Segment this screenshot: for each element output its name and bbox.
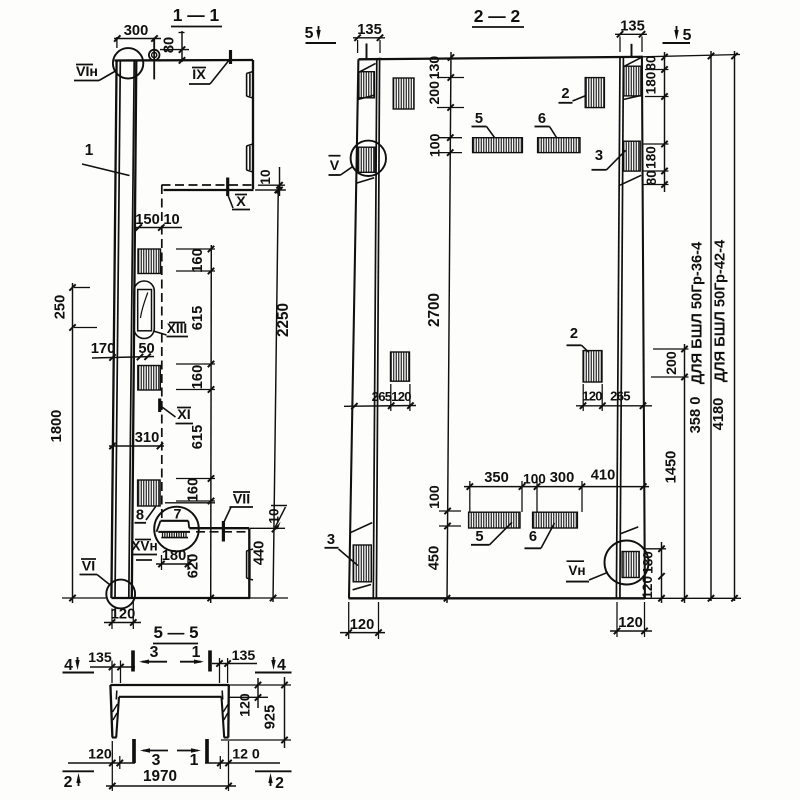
5-5 dim 120 line (257, 678, 259, 708)
chain 449 tick y526 (444, 523, 450, 529)
label 1 leader (82, 142, 130, 176)
5-5 left leg outer (110, 685, 112, 738)
dim 120 text l (391, 389, 411, 404)
label X (228, 194, 250, 210)
groove notch lower on 1-1 right edge (246, 144, 253, 172)
2-2 left rib outer edge (349, 59, 358, 598)
dim 10 corner line (279, 167, 281, 196)
svg-text:Vн: Vн (568, 563, 585, 578)
anchor block 8 upper (138, 249, 161, 274)
label 3 left (325, 532, 358, 566)
svg-text:615: 615 (190, 425, 206, 450)
svg-text:3: 3 (150, 644, 159, 661)
detail circle VI bottom (106, 580, 135, 609)
chain 211 tick y249 (208, 246, 214, 252)
marker 4 left (63, 657, 95, 674)
svg-text:50: 50 (138, 341, 154, 357)
svg-text:2: 2 (64, 774, 73, 791)
marker 2 left (63, 771, 95, 791)
plate 2 mid-right (583, 351, 602, 382)
chain 2250 ticks (270, 187, 281, 601)
label IX (189, 61, 229, 85)
svg-text:135: 135 (88, 650, 112, 666)
svg-text:XVн: XVн (131, 539, 157, 554)
svg-text:120: 120 (618, 615, 643, 631)
dim 80 text a (644, 55, 659, 70)
svg-text:450: 450 (427, 546, 443, 571)
label 7 in detail (174, 507, 182, 523)
svg-text:200: 200 (427, 81, 443, 105)
1-1 lower-right part top edge (189, 527, 249, 529)
svg-text:2 — 2: 2 — 2 (474, 6, 520, 26)
dim 350-410 tick x522 (519, 483, 525, 489)
5-5 dim 1970 line (106, 785, 236, 787)
dim 200 text r (664, 351, 680, 375)
serration teeth (163, 533, 187, 538)
dim 440 text (252, 541, 268, 566)
2-2 right rib outer edge (642, 57, 645, 598)
chain 449 tick y57.5 (448, 54, 454, 60)
5-5 leg hatch right (223, 704, 228, 720)
svg-text:615: 615 (190, 306, 206, 331)
5-5 top edge (110, 684, 229, 686)
dim 180 line (156, 563, 192, 565)
lifting loop (149, 50, 160, 61)
chain 4180 ticks (731, 53, 737, 602)
chain 664 tick y144 (661, 141, 667, 147)
2-2 right rib diag b (623, 96, 640, 100)
svg-text:4: 4 (277, 657, 286, 674)
5-5 left leg bottom (112, 736, 117, 738)
chain 211 ext y389.5 (176, 389, 215, 391)
svg-text:180: 180 (644, 146, 659, 169)
step lower edge (158, 531, 190, 533)
dim 10 step text (267, 508, 282, 523)
view 1-1 title (171, 5, 222, 27)
dim 80 text b (644, 170, 659, 185)
svg-text:410: 410 (591, 468, 616, 484)
1-1 bottom edge (111, 597, 250, 599)
2-2 left rib inner edge b (376, 58, 379, 599)
5-5 dim 135 right ext (220, 658, 228, 683)
dim 120-265 ticks (580, 403, 646, 409)
svg-text:1450: 1450 (664, 451, 680, 484)
5-5 dim 120 br (205, 747, 280, 767)
label 6 bottom (525, 523, 555, 548)
svg-text:135: 135 (620, 19, 645, 35)
label VIn (74, 64, 115, 81)
chain 211 tick y364 (208, 361, 214, 367)
chain 2250 line (273, 186, 278, 602)
1-1 right flange edge (252, 60, 254, 189)
chain 449 tick y511 (444, 508, 450, 514)
detail circle XVn (154, 507, 199, 552)
svg-text:120: 120 (88, 747, 112, 763)
chain 684 ticks (681, 346, 687, 602)
svg-text:440: 440 (252, 541, 268, 566)
plate 5 top (473, 138, 523, 153)
dim 100 text mid (523, 472, 546, 487)
cut bar 1 bottom (177, 739, 207, 769)
2-2 right rib inner edge b (620, 57, 624, 598)
dim 615 text a (190, 306, 206, 331)
2-2 left rib diag c (356, 178, 374, 184)
dim 350-410 tick x643.3 (640, 483, 646, 489)
svg-text:3: 3 (595, 148, 603, 164)
chain 449 tick y598.3 (444, 595, 450, 601)
2-2 dim 120 bl ext (349, 602, 379, 639)
dim 2250 ext top (255, 189, 286, 191)
dim 310 ticks (109, 443, 163, 449)
svg-text:1970: 1970 (143, 768, 177, 785)
svg-text:180: 180 (644, 72, 659, 95)
chain 211 line (210, 245, 213, 603)
svg-text:1 — 1: 1 — 1 (173, 5, 220, 25)
dim 180 text b (644, 146, 659, 169)
dim 410 text (591, 468, 616, 484)
chain 664 ext (643, 70, 669, 185)
svg-text:1800: 1800 (49, 410, 65, 443)
svg-text:1: 1 (85, 142, 94, 159)
5-5 dim 925 text (263, 705, 279, 730)
5-5 right leg inner (222, 697, 225, 738)
2-2 left rib top pin (366, 44, 368, 60)
text 4180 (711, 398, 727, 431)
chain 449 line (447, 52, 451, 603)
dim 135 left line (353, 37, 385, 39)
label VI (80, 559, 110, 585)
svg-text:80: 80 (162, 37, 178, 53)
svg-text:10: 10 (163, 212, 179, 228)
svg-text:120: 120 (391, 389, 411, 404)
dim 120 line (104, 622, 141, 624)
dim 620 text (186, 554, 202, 579)
dim 180 text c (641, 551, 656, 574)
label 6 top (535, 111, 557, 138)
2-2 left rib diag b (358, 95, 374, 99)
svg-text:80: 80 (644, 55, 659, 70)
2-2 dim 120 bottom right (610, 615, 652, 634)
2-2 left rib block bottom (353, 545, 371, 582)
svg-text:12 0: 12 0 (232, 747, 260, 763)
chain 449 ext b (438, 138, 462, 153)
marker 2 right (255, 771, 292, 792)
2-2 right rib diag c (620, 175, 641, 185)
lifting loop stem (153, 38, 155, 80)
label 5 top (472, 111, 495, 138)
plate 6 bottom (533, 512, 578, 528)
dim 120 text c (640, 576, 655, 599)
svg-text:265: 265 (372, 389, 392, 404)
svg-text:8: 8 (136, 508, 144, 524)
1-1 hidden dashed edge horizontal (162, 184, 254, 186)
dim 10 corner text (258, 169, 273, 184)
svg-text:180: 180 (162, 548, 187, 564)
1-1 hidden dashed edge vertical (161, 185, 163, 519)
chain 449 tick y77.5 (448, 74, 454, 80)
chain 3580 ticks (708, 53, 714, 602)
chain 211 ext y249 (176, 248, 215, 250)
svg-text:100: 100 (428, 133, 444, 157)
dim 100 text top (428, 133, 444, 157)
dim 135 right line (615, 33, 647, 35)
svg-text:XI: XI (177, 407, 190, 423)
5-5 corner mark right (221, 691, 224, 700)
dim 160 text a (190, 248, 206, 273)
dim 10 corner ext (256, 185, 285, 190)
dim 10 step bracket (271, 506, 287, 530)
dim 135 left ticks (354, 35, 383, 41)
chain 211 tick y501 (208, 498, 214, 504)
step side (188, 521, 189, 528)
2-2 bottom edge (349, 597, 646, 599)
dim 80 ticks (179, 46, 185, 63)
dim 180 ext (162, 555, 189, 570)
1-1 rib inner-left edge (115, 61, 120, 598)
dim 265-120 line (344, 405, 416, 408)
slot outline XIII (134, 281, 154, 339)
svg-text:130: 130 (427, 56, 443, 80)
dim 1800 bottom ext (62, 597, 106, 599)
svg-text:3: 3 (152, 752, 161, 769)
svg-text:5: 5 (305, 25, 314, 42)
svg-text:VII: VII (233, 492, 250, 508)
dim 150 text (135, 212, 160, 228)
2-2 right rib block bottom (622, 552, 639, 578)
5-5 dim 120 text (238, 693, 254, 717)
dim 350-410 tick x537 (534, 483, 540, 489)
cut bar 3 bottom (134, 739, 168, 769)
dim 350-410 ext (470, 481, 582, 512)
svg-text:150: 150 (135, 212, 160, 228)
dim 265 text r (610, 389, 630, 404)
label V (329, 156, 353, 175)
chain 211 ext y501 long (165, 502, 215, 504)
svg-text:120: 120 (582, 389, 602, 404)
chain 664 line (664, 52, 666, 192)
section tick IX (229, 50, 232, 64)
label 3 right (592, 148, 626, 170)
svg-text:3: 3 (327, 532, 335, 548)
serration bottom line (161, 537, 188, 539)
5-5 dim 120 br ext (220, 741, 228, 791)
label XI (162, 407, 193, 424)
label 8 (135, 507, 156, 524)
detail circle V (351, 141, 386, 176)
svg-text:160: 160 (190, 365, 206, 390)
chain 661 ticks (658, 546, 664, 602)
svg-text:1: 1 (190, 752, 199, 769)
dim 615 text b (190, 425, 206, 450)
slot inner plate (138, 290, 152, 331)
svg-text:VI: VI (82, 559, 95, 575)
svg-text:135: 135 (232, 648, 256, 664)
2-2 right rib diag d (621, 527, 638, 534)
dim 120 text r (582, 389, 602, 404)
2-2 right rib block top (624, 66, 641, 96)
5-5 dim 925 line (284, 677, 286, 748)
dim 10 text (163, 212, 179, 228)
svg-text:300: 300 (550, 470, 575, 486)
svg-text:2: 2 (275, 775, 284, 792)
1-1 rib inner-right edge (129, 61, 134, 598)
svg-text:100: 100 (427, 485, 443, 509)
dim 150-10 line (136, 227, 182, 229)
5-5 right leg outer (227, 685, 230, 738)
svg-text:120: 120 (350, 617, 375, 633)
chain 211 ext y364 (176, 363, 215, 365)
dim 300 ext (116, 37, 118, 48)
5-5 leg hatch left (113, 704, 118, 720)
svg-text:925: 925 (263, 705, 279, 730)
2-2 right rib inner edge a (616, 57, 620, 598)
chain 684 ext (651, 349, 689, 377)
anchor block 8 lower (138, 480, 161, 506)
chain 664 tick y69.5 (661, 66, 667, 72)
chain 664 tick y96.5 (661, 93, 667, 99)
section marker 5 left (305, 25, 336, 43)
dim 300 text (124, 23, 149, 39)
dim 120 ticks (109, 619, 137, 625)
2-2 right rib block mid (624, 141, 641, 171)
dim 120 ext (112, 600, 133, 629)
text dlya 36-4 (690, 241, 706, 384)
svg-text:10: 10 (258, 169, 273, 184)
svg-text:5: 5 (683, 27, 692, 44)
dim 2700 text (426, 293, 443, 327)
chain 449 ext c (439, 511, 461, 526)
step left diagonal (157, 521, 161, 532)
2-2 left rib diag a (359, 63, 376, 72)
dim 440 ext (250, 528, 288, 598)
svg-text:6: 6 (529, 529, 537, 545)
section tick XI (158, 399, 161, 413)
dim chain left line (72, 283, 74, 603)
svg-text:5: 5 (475, 529, 483, 545)
chain 664 tick y171 (661, 168, 667, 174)
slot inner curve (141, 293, 148, 319)
2-2 left rib diag e (353, 585, 371, 590)
detail circle VIn top (113, 48, 143, 78)
svg-text:160: 160 (190, 248, 206, 273)
5-5 dim 135 left (88, 650, 135, 670)
label 5 bottom (471, 522, 512, 545)
dim 135 left ext (358, 40, 380, 53)
svg-text:170: 170 (91, 341, 116, 357)
svg-text:7: 7 (174, 507, 182, 523)
chain 664 tick y184.5 (661, 181, 667, 187)
dim 120-265 line (576, 405, 652, 407)
section tick VII (222, 521, 225, 542)
2-2 left rib block mid (358, 147, 375, 172)
dim 250 text (53, 295, 69, 320)
5-5 left leg inner (116, 697, 119, 738)
dim 300 ticks (114, 35, 158, 41)
dim 50 text (138, 341, 154, 357)
svg-text:5: 5 (475, 111, 483, 127)
5-5 dim 120 ticks (255, 682, 261, 701)
dim 180 text a (644, 72, 659, 95)
2-2 left rib block top (359, 72, 375, 98)
chain 211 bottom arrow tick (208, 595, 214, 601)
chain 4180 line (734, 51, 736, 601)
dim 160 text b (190, 365, 206, 390)
svg-text:160: 160 (186, 478, 202, 503)
chain 661 ext (643, 548, 666, 550)
svg-text:V: V (330, 158, 340, 174)
view 2-2 title (472, 6, 524, 27)
chain 449 tick y152.6 (447, 149, 453, 155)
dim 350 text (484, 470, 509, 486)
cut bar 3 top (133, 644, 167, 672)
2-2 dim 120 bottom left (340, 617, 385, 636)
text dlya 42-4 (713, 239, 729, 382)
dim 180 text (162, 548, 187, 564)
2-2 right rib top pin (631, 44, 633, 57)
dim 350-410 tick x582 (579, 483, 585, 489)
svg-text:135: 135 (357, 22, 382, 38)
5-5 dim 1970 text (143, 768, 177, 785)
dim 350-410 tick x469.8 (467, 483, 473, 489)
5-5 dim 120 ext (229, 696, 268, 698)
svg-text:180: 180 (641, 551, 656, 574)
1-1 rib outer-right edge (132, 61, 137, 599)
section marker 5 right (663, 26, 692, 44)
svg-text:4: 4 (64, 657, 73, 674)
svg-text:100: 100 (523, 472, 546, 487)
svg-text:5 — 5: 5 — 5 (153, 623, 198, 642)
svg-text:ДЛЯ БШЛ 50Гр-42-4: ДЛЯ БШЛ 50Гр-42-4 (713, 239, 729, 382)
dim 135 left text (357, 22, 382, 38)
dim 120-265 ext (583, 384, 602, 411)
2-2 left rib inner edge a (373, 59, 377, 598)
dim 120 text (111, 607, 136, 623)
dim 350-410 line (464, 486, 649, 488)
svg-text:6: 6 (538, 111, 546, 127)
svg-text:2250: 2250 (275, 303, 292, 337)
svg-text:358 0: 358 0 (688, 397, 704, 434)
dim 135 right ext (620, 37, 642, 53)
dim 300 line (114, 38, 161, 40)
dim 1800 bottom tick (69, 595, 75, 601)
dim 300 text (550, 470, 575, 486)
label 2 top (559, 86, 587, 103)
5-5 dim 120 bl (68, 747, 135, 767)
view 5-5 title (153, 623, 199, 644)
dim 265-120 ticks (351, 402, 413, 409)
dim 310 line (109, 445, 164, 447)
groove notch upper on 1-1 right edge (246, 72, 253, 99)
plate top-left (393, 78, 414, 109)
chain 449 tick y107.5 (447, 104, 453, 110)
chain 211 tick y478.5 (208, 475, 214, 481)
svg-text:2: 2 (561, 86, 569, 102)
dim 170-50 line (92, 357, 154, 359)
cut bar 1 top (180, 644, 210, 672)
chain 449 ext a (437, 78, 464, 108)
svg-text:350: 350 (484, 470, 509, 486)
dim 170 text (91, 341, 116, 357)
anchor block middle (138, 366, 161, 391)
chain 449 tick y137.6 (447, 134, 453, 140)
plate 2 top-right (585, 78, 604, 108)
chain 684 line (684, 344, 686, 603)
1-1 hidden dashed below step (196, 531, 247, 533)
dim 1800 text (49, 410, 65, 443)
dim 10 corner ticks (276, 182, 282, 193)
5-5 dim 135 left ext (112, 661, 121, 684)
detail circle Vn (605, 541, 649, 585)
